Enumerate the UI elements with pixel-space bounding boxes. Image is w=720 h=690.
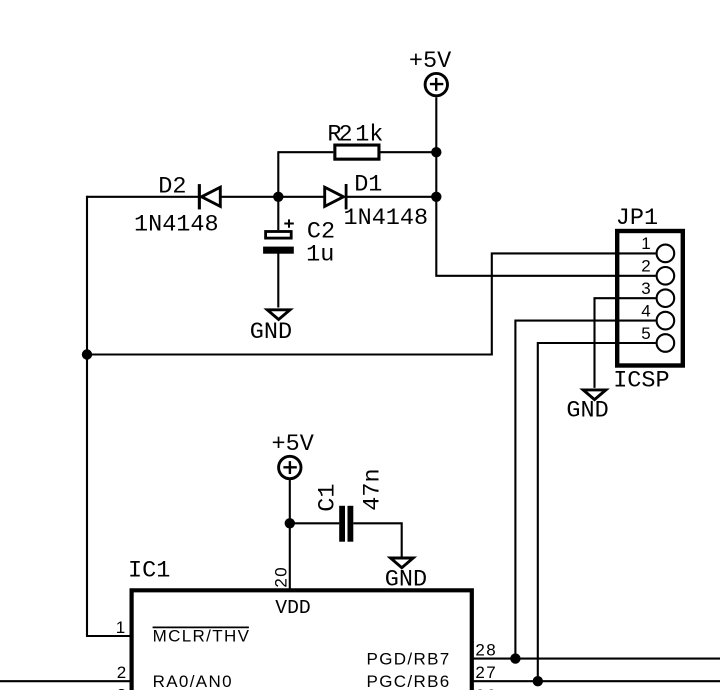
- svg-text:ICSP: ICSP: [613, 368, 669, 395]
- svg-text:+5V: +5V: [409, 48, 451, 75]
- svg-text:3: 3: [117, 686, 128, 690]
- svg-text:VDD: VDD: [275, 597, 310, 619]
- svg-text:2: 2: [641, 257, 652, 276]
- svg-text:PGD/RB7: PGD/RB7: [367, 649, 451, 668]
- svg-text:1u: 1u: [306, 241, 334, 268]
- svg-text:26: 26: [475, 686, 497, 690]
- svg-text:R2: R2: [327, 121, 351, 148]
- svg-text:C1: C1: [314, 483, 341, 511]
- svg-text:1: 1: [116, 618, 127, 637]
- svg-text:5: 5: [641, 324, 652, 343]
- svg-text:1N4148: 1N4148: [134, 211, 219, 238]
- svg-text:MCLR/THV: MCLR/THV: [153, 626, 251, 645]
- svg-text:1N4148: 1N4148: [344, 205, 429, 232]
- svg-text:3: 3: [641, 279, 652, 298]
- svg-text:2: 2: [117, 663, 128, 682]
- svg-text:4: 4: [641, 301, 652, 320]
- svg-text:PGC/RB6: PGC/RB6: [367, 672, 451, 690]
- svg-text:JP1: JP1: [616, 205, 658, 232]
- svg-text:D1: D1: [354, 171, 382, 198]
- svg-text:47n: 47n: [359, 468, 386, 510]
- svg-text:28: 28: [475, 641, 497, 660]
- svg-text:D2: D2: [158, 173, 186, 200]
- svg-text:20: 20: [272, 566, 291, 588]
- svg-text:RA0/AN0: RA0/AN0: [153, 672, 233, 690]
- svg-text:27: 27: [475, 663, 497, 682]
- svg-text:1: 1: [641, 234, 652, 253]
- svg-text:1k: 1k: [355, 121, 383, 148]
- svg-text:+5V: +5V: [272, 431, 314, 458]
- svg-text:GND: GND: [566, 397, 608, 424]
- svg-text:IC1: IC1: [128, 557, 170, 584]
- svg-text:GND: GND: [250, 319, 292, 346]
- svg-text:GND: GND: [385, 567, 427, 594]
